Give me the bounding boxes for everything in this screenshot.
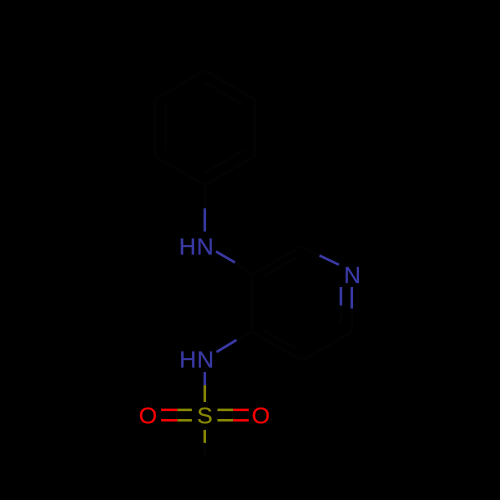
svg-text:O: O [252,403,270,429]
svg-text:S: S [197,402,213,428]
svg-text:H: H [179,346,196,372]
svg-text:N: N [197,346,214,372]
svg-text:N: N [344,262,361,288]
svg-text:H: H [179,233,196,259]
svg-text:O: O [139,403,157,429]
svg-text:N: N [197,233,214,259]
